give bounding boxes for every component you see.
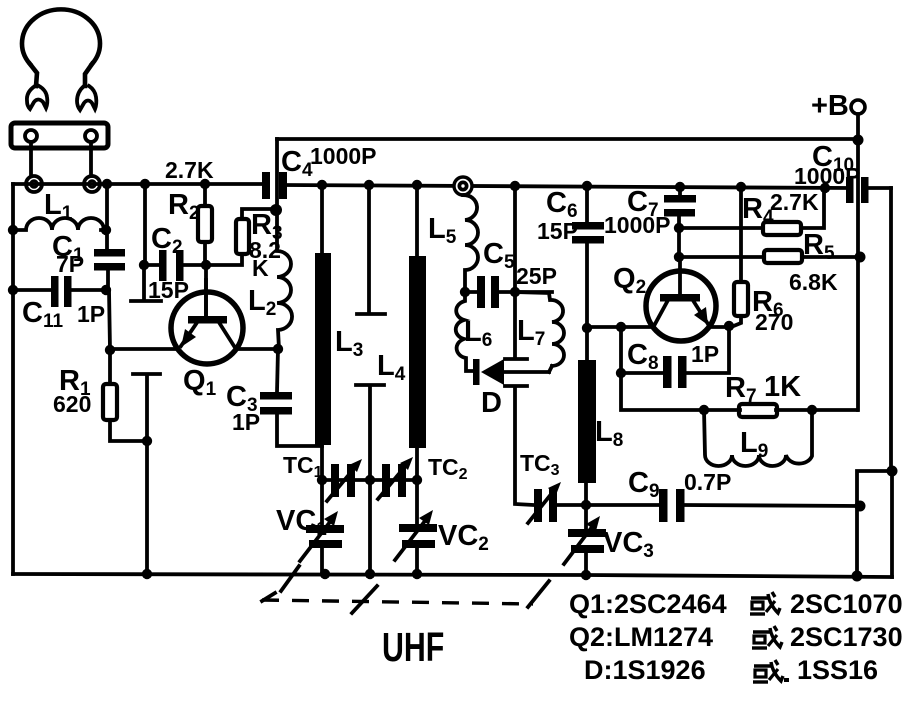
label UHF: [382, 623, 444, 670]
svg-text:2SC1730: 2SC1730: [790, 622, 903, 652]
wire: ground bus bottom: [13, 574, 892, 577]
parts list line 1: [569, 589, 903, 619]
label R4 2.7K: [742, 189, 819, 228]
label C3 1P: [226, 381, 260, 435]
wire: +B rail: [856, 114, 860, 410]
wire: trimmer row: [322, 478, 417, 482]
wire: left ground rail: [11, 184, 15, 574]
label C6 15P: [537, 187, 578, 244]
svg-text:1P: 1P: [691, 341, 719, 367]
gang slash VC2: [352, 586, 377, 613]
diode D: [473, 359, 504, 385]
capacitor C7: [664, 195, 696, 217]
svg-text:1000P: 1000P: [604, 212, 671, 238]
resistor R5: [764, 250, 802, 263]
wire: C10 to right rail: [868, 186, 891, 190]
wire: emitter load row: [621, 373, 857, 410]
svg-text:0.7P: 0.7P: [684, 469, 731, 495]
inductor L7: [515, 292, 564, 366]
node: TC3/L8 junction: [581, 500, 591, 510]
label C9 0.7P: [628, 467, 731, 502]
gang slash VC1: [281, 566, 299, 591]
terminal +B: [811, 90, 865, 122]
resistor R7: [739, 404, 777, 417]
wire: C3 to L3 foot: [277, 414, 322, 446]
shield stub tap lower: [505, 386, 534, 505]
antenna terminal strip: [11, 123, 108, 148]
wire: oscillator tap upper: [505, 186, 527, 359]
connector feed-through: [454, 177, 472, 195]
node: right link junctions: [852, 466, 898, 582]
wire: R1 to shield stub: [110, 420, 147, 441]
label C10 1000P: [794, 141, 861, 189]
node: R1 foot: [142, 436, 152, 446]
node: tank nodes: [8, 225, 115, 355]
wire: C2 links: [145, 263, 206, 267]
svg-text:1000P: 1000P: [310, 143, 377, 169]
wire: TC3 row: [557, 503, 586, 507]
node: load row junctions: [699, 405, 817, 415]
wire: C9 row: [586, 505, 860, 506]
variable capacitor VC2: [395, 480, 437, 574]
node: +B rail junctions: [853, 135, 866, 263]
capacitor C10: [846, 177, 869, 203]
resistor R4: [763, 222, 801, 235]
node: R3/L2 junction: [270, 204, 282, 216]
wire: top supply bus: [277, 137, 858, 141]
svg-text:Q2:LM1274: Q2:LM1274: [569, 622, 713, 652]
label R1 620: [53, 365, 91, 417]
wire: R4 loop: [679, 188, 824, 228]
inductor L5: [463, 195, 478, 292]
label C11 1P: [22, 297, 105, 332]
parts list line 3: [584, 655, 878, 685]
capacitor C1: [94, 249, 125, 271]
wire: C2 branch from input line: [143, 184, 147, 265]
inductor L3 (line): [315, 185, 331, 480]
gang coupling dashed line: [262, 600, 533, 604]
svg-text:1000P: 1000P: [794, 163, 861, 189]
capacitor C5: [477, 276, 499, 308]
wire: antenna input line: [13, 182, 264, 186]
capacitor C3: [260, 392, 292, 415]
wire: Q2 emitter row: [587, 325, 729, 329]
wire: Q1 emitter to left rail: [110, 347, 178, 351]
svg-text:2SC1070: 2SC1070: [790, 589, 903, 619]
trimmer TC1: [327, 459, 362, 501]
svg-text:7P: 7P: [56, 251, 84, 277]
svg-text:K: K: [252, 255, 269, 281]
svg-text:+B: +B: [811, 90, 849, 122]
capacitor C11: [51, 276, 72, 307]
connector J2: [84, 176, 100, 192]
inductor L8 (line): [578, 328, 596, 505]
antenna lug right: [77, 86, 96, 110]
capacitor C6: [572, 222, 604, 244]
label R3 8.2K: [249, 209, 283, 281]
svg-text:1K: 1K: [764, 371, 801, 403]
label C7 1000P: [604, 186, 671, 238]
label R7 1K: [725, 371, 801, 407]
wire: C5 row: [465, 290, 552, 294]
wire: L7 bottom elbow: [549, 366, 552, 372]
wire: C4 vertical link: [275, 139, 279, 210]
wire: right lower link: [857, 471, 892, 576]
wire: R2 leads: [203, 184, 207, 265]
node: C5 junctions: [460, 287, 520, 297]
antenna loop: [22, 9, 100, 86]
svg-text:D:1S1926: D:1S1926: [584, 655, 706, 685]
gang slash VC3: [528, 581, 549, 607]
trimmer TC2: [378, 457, 413, 499]
node: emitter junctions: [582, 321, 734, 333]
label C1 7P: [52, 231, 84, 277]
svg-text:1P: 1P: [232, 409, 260, 435]
resistor R1: [103, 384, 117, 420]
wire: C6 branch: [585, 186, 589, 328]
capacitor C8: [663, 356, 687, 388]
node: base junctions: [674, 223, 684, 262]
svg-text:D: D: [481, 387, 502, 419]
wire: R3 top loop: [242, 209, 276, 219]
svg-text:1P: 1P: [77, 301, 105, 327]
wire: R3 bottom loop: [206, 254, 242, 265]
trimmer TC3: [528, 482, 561, 523]
node: C8 left: [616, 368, 626, 378]
label C2 15P: [148, 223, 189, 303]
node: ground bus junctions: [320, 569, 591, 580]
parts list line 2: [569, 622, 903, 652]
shield stub upper (C2 ground): [131, 265, 161, 301]
inductor L9: [704, 410, 812, 466]
shield stub lower: [133, 374, 160, 574]
capacitor C4: [262, 172, 287, 199]
wire: C7 branch / Q2 base: [679, 187, 680, 295]
node: collector junction: [273, 344, 283, 354]
wire: C8 loop: [621, 327, 729, 373]
resistor R6: [734, 282, 748, 316]
wire: Q1 base lead: [204, 265, 208, 316]
wire: main tuned bus: [283, 185, 849, 188]
inductor L2: [277, 210, 292, 349]
svg-text:2.7K: 2.7K: [770, 189, 819, 215]
wire: diode to L7: [504, 370, 549, 374]
label C8 1P: [627, 339, 719, 374]
wire: C11 link: [13, 288, 106, 292]
svg-text:UHF: UHF: [382, 623, 444, 670]
shield stub mid upper: [357, 185, 385, 314]
inductor L1: [15, 218, 104, 230]
connector J1: [26, 176, 42, 192]
node: stub foot on ground bus: [142, 569, 152, 579]
label R6 270: [752, 286, 793, 335]
label C5 25P: [483, 238, 557, 289]
svg-text:270: 270: [755, 309, 793, 335]
resistor R2: [198, 206, 212, 242]
wire: strip to input connectors: [31, 142, 91, 176]
node: trimmer row junctions: [317, 475, 422, 485]
variable capacitor VC1: [300, 480, 344, 574]
wire: right edge rail: [891, 188, 892, 577]
shield stub mid lower: [356, 385, 384, 574]
label R5 6.8K: [789, 229, 838, 295]
inductor L4 (line): [409, 185, 426, 480]
gang line start tick: [262, 593, 275, 601]
svg-text:2.7K: 2.7K: [165, 157, 214, 183]
wire: R5 row: [679, 255, 858, 259]
svg-text:620: 620: [53, 391, 91, 417]
svg-text:15P: 15P: [537, 218, 578, 244]
wire: R6 leads: [731, 187, 741, 327]
svg-text:1SS16: 1SS16: [797, 655, 878, 685]
svg-text:Q1:2SC2464: Q1:2SC2464: [569, 589, 727, 619]
capacitor C9: [659, 489, 685, 522]
wire: left tank vertical: [107, 184, 110, 384]
transistor Q2: [646, 271, 716, 341]
wire: Q1 collector to L2: [236, 347, 278, 351]
resistor R3: [236, 219, 249, 254]
svg-text:6.8K: 6.8K: [789, 269, 838, 295]
wire: collector down to C3: [277, 349, 278, 392]
antenna lug left: [27, 86, 47, 109]
variable capacitor VC3: [564, 505, 606, 575]
capacitor C2: [159, 250, 184, 281]
transistor Q1: [171, 280, 243, 364]
node: C2 terminals: [139, 260, 211, 270]
inductor L6: [456, 292, 474, 371]
svg-text:25P: 25P: [516, 263, 557, 289]
node: input junctions: [102, 179, 210, 189]
label C4 1000P: [281, 143, 377, 181]
node: bus junctions: [317, 180, 830, 193]
